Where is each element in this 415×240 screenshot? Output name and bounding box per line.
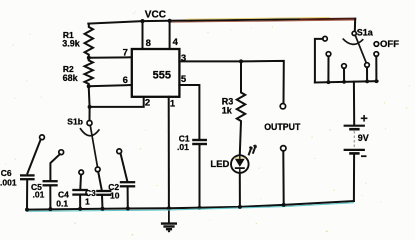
wire battery - to rail <box>353 155 355 201</box>
IC U1 555 timer <box>132 49 180 97</box>
switch contact to C4 <box>79 170 84 175</box>
svg-text:0.1: 0.1 <box>56 198 68 208</box>
node bus junction c3 <box>342 80 346 84</box>
wire lower output terminal to rail <box>282 151 284 205</box>
svg-text:6: 6 <box>123 75 128 86</box>
switch S1a pole contact <box>352 31 356 35</box>
wire C1 to ground rail <box>199 145 201 208</box>
switch S1a contact 4 <box>365 63 370 68</box>
svg-text:10: 10 <box>110 190 120 200</box>
capacitor C2 <box>120 182 135 186</box>
wire VCC rail to S1a pole <box>354 19 356 31</box>
switch contact to C5 <box>59 150 64 155</box>
node output/rail junction <box>282 203 286 207</box>
wire C3 to rail <box>101 195 104 208</box>
wire pin 7 <box>89 56 132 59</box>
wire pin 2 <box>90 97 144 107</box>
svg-text:LED: LED <box>210 159 229 170</box>
capacitor C4 <box>72 190 88 195</box>
wire rail cyan fringe <box>27 203 354 212</box>
resistor R2 <box>84 58 92 87</box>
node pin1/rail junction <box>167 206 171 210</box>
wire pin 5 <box>179 85 199 139</box>
switch S1a contact 1 <box>323 36 328 41</box>
battery B1 9V <box>344 126 365 154</box>
switch S1a rotation arc <box>343 39 364 45</box>
wire C2 to rail <box>127 187 129 209</box>
svg-text:OUTPUT: OUTPUT <box>264 122 301 132</box>
node LED/rail junction <box>238 205 242 209</box>
switch S1a OFF contact <box>374 42 379 47</box>
wire VCC rail yellow fringe <box>186 18 330 20</box>
node C1/rail junction <box>198 206 202 210</box>
svg-text:S1a: S1a <box>357 27 374 37</box>
svg-text:VCC: VCC <box>145 10 166 21</box>
svg-text:5: 5 <box>181 74 187 85</box>
switch contact to C2 <box>117 149 122 154</box>
wire pin 4 <box>169 21 171 49</box>
node C2/rail junction <box>126 207 130 211</box>
ground <box>161 208 177 231</box>
wire pin 6 <box>89 85 132 86</box>
wire contact to C6 <box>27 139 40 173</box>
switch S1a contact 2 <box>326 52 331 57</box>
node pin2/S1b junction <box>88 105 92 109</box>
wire bus to battery + <box>353 82 355 125</box>
switch S1a contact 3 <box>342 64 347 69</box>
wire C5 to rail <box>49 186 51 209</box>
node C5/rail junction <box>48 207 52 211</box>
wire VCC rail maroon tint overlay <box>300 18 355 21</box>
wire pin 1 to ground rail <box>168 97 170 209</box>
svg-text:2: 2 <box>145 98 150 109</box>
wire contact to C3 <box>98 172 102 191</box>
wire C6 to rail <box>26 180 28 210</box>
wire contact to C2 <box>121 153 128 181</box>
switch S1b wiper <box>90 126 97 167</box>
svg-text:.01: .01 <box>33 190 45 200</box>
node VCC/pin8 junction <box>140 19 144 23</box>
svg-text:C6: C6 <box>1 168 12 178</box>
svg-text:8: 8 <box>146 38 151 49</box>
node R2/pin6 junction <box>87 84 91 88</box>
node C6/rail junction <box>25 208 29 212</box>
node bus junction c5 <box>375 79 379 83</box>
node bus junction c2 <box>327 80 331 84</box>
svg-text:1: 1 <box>170 99 176 110</box>
capacitor C6 <box>20 175 35 179</box>
LED D1 <box>231 145 256 173</box>
capacitor C1 <box>192 140 207 144</box>
switch S1a wiper <box>355 35 366 63</box>
wire contact3 to bus <box>343 68 345 82</box>
svg-text:1: 1 <box>85 196 90 206</box>
switch S1b rotation arc <box>80 128 99 136</box>
wire pin 8 <box>142 21 144 49</box>
wire R2 bottom to pin2 node <box>88 86 91 107</box>
wire C4 to rail <box>79 195 81 209</box>
svg-text:.001: .001 <box>0 178 17 188</box>
node bus junction c4 <box>365 80 369 84</box>
capacitor C3 <box>96 191 111 195</box>
capacitor C5 <box>43 181 58 185</box>
svg-text:1k: 1k <box>222 106 233 116</box>
svg-text:555: 555 <box>153 69 171 81</box>
switch contact to C3 <box>95 167 100 172</box>
wire contact5 to bus <box>375 56 377 81</box>
svg-text:3: 3 <box>181 53 186 64</box>
switch S1b pole contact <box>87 121 92 126</box>
wire VCC top rail <box>88 19 355 24</box>
svg-text:4: 4 <box>173 37 179 48</box>
node C3/rail junction <box>101 207 105 211</box>
node pin3/R3 junction <box>239 59 243 63</box>
svg-text:.01: .01 <box>177 142 189 152</box>
wire VCC rail red fringe <box>170 20 356 22</box>
battery plus sign <box>361 115 368 122</box>
wire ground rail <box>27 201 354 210</box>
svg-text:3.9k: 3.9k <box>62 38 81 48</box>
switch S1a contact 5 <box>374 52 379 57</box>
wire contact to C4 <box>79 175 82 190</box>
battery minus sign <box>361 155 367 157</box>
svg-text:68k: 68k <box>63 73 79 83</box>
output terminal upper <box>280 104 285 109</box>
wire contact to C5 <box>50 154 60 180</box>
node C4/rail junction <box>78 207 82 211</box>
wire S1a bus <box>315 81 378 82</box>
svg-text:9V: 9V <box>358 133 369 143</box>
switch contact to C6 <box>40 135 45 140</box>
svg-text:7: 7 <box>123 48 128 59</box>
wire pin 3 to output <box>179 61 283 104</box>
switch S1b pole wire <box>89 107 91 121</box>
node R1/R2/pin7 junction <box>87 56 91 60</box>
svg-text:S1b: S1b <box>67 116 83 126</box>
node VCC/pin4 junction <box>168 19 172 23</box>
wire contact2 to bus <box>327 56 329 82</box>
wire LED to rail <box>239 173 241 207</box>
output terminal lower <box>281 146 286 151</box>
resistor R1 <box>85 24 93 58</box>
wire contact4 to bus <box>366 67 368 81</box>
wire contact1 to bus <box>315 39 323 83</box>
resistor R3 <box>237 61 245 154</box>
svg-text:OFF: OFF <box>380 39 399 50</box>
